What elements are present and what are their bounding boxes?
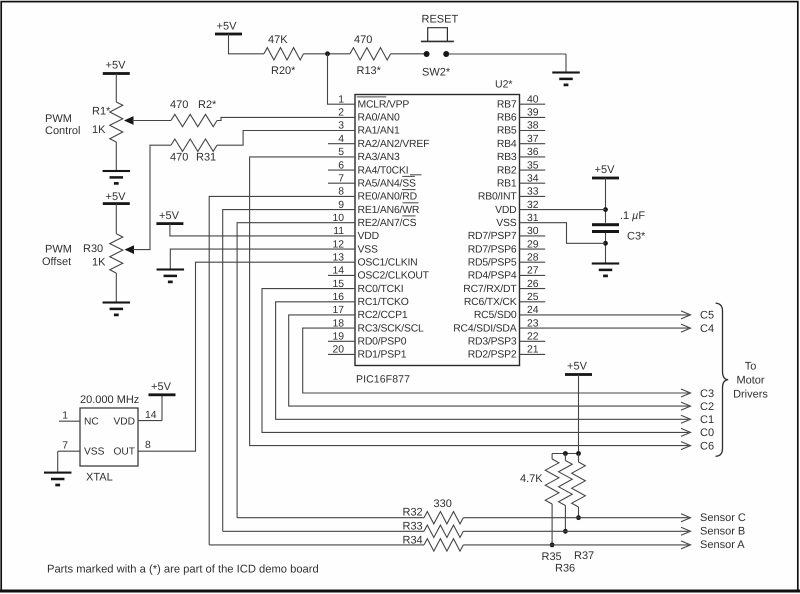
- svg-text:Control: Control: [45, 125, 80, 137]
- svg-text:1K: 1K: [92, 124, 106, 136]
- svg-text:RC2/CCP1: RC2/CCP1: [358, 310, 408, 321]
- svg-text:PWM: PWM: [45, 244, 72, 256]
- svg-text:R31: R31: [196, 152, 216, 164]
- svg-text:RB0/INT: RB0/INT: [478, 192, 517, 203]
- svg-text:VSS: VSS: [84, 447, 105, 458]
- svg-text:Offset: Offset: [42, 256, 71, 268]
- svg-text:RD7/PSP6: RD7/PSP6: [468, 244, 517, 255]
- svg-text:8: 8: [145, 440, 151, 451]
- svg-text:RD3/PSP3: RD3/PSP3: [468, 337, 517, 348]
- svg-text:Drivers: Drivers: [733, 389, 768, 401]
- svg-text:R30: R30: [83, 243, 103, 255]
- svg-text:Sensor C: Sensor C: [700, 512, 746, 524]
- svg-text:VDD: VDD: [113, 417, 135, 428]
- svg-text:C1: C1: [700, 414, 714, 426]
- svg-text:+5V: +5V: [159, 210, 180, 222]
- svg-text:OSC2/CLKOUT: OSC2/CLKOUT: [358, 271, 430, 282]
- svg-text:R20*: R20*: [271, 65, 296, 77]
- svg-text:C3*: C3*: [627, 231, 646, 243]
- svg-text:RC0/TCKI: RC0/TCKI: [358, 284, 404, 295]
- svg-text:470: 470: [354, 34, 372, 46]
- svg-text:RE1/AN6/WR: RE1/AN6/WR: [358, 205, 420, 216]
- svg-text:U2*: U2*: [495, 79, 513, 91]
- svg-text:PWM: PWM: [45, 113, 72, 125]
- svg-text:14: 14: [145, 410, 157, 421]
- svg-text:C5: C5: [700, 310, 714, 322]
- svg-text:R33: R33: [403, 521, 423, 533]
- svg-text:Sensor B: Sensor B: [700, 526, 745, 538]
- svg-text:7: 7: [62, 441, 68, 452]
- svg-text:Sensor A: Sensor A: [700, 539, 745, 551]
- svg-text:SW2*: SW2*: [422, 66, 451, 78]
- svg-text:RB1: RB1: [497, 178, 517, 189]
- svg-text:RA3/AN3: RA3/AN3: [358, 152, 400, 163]
- svg-text:RB2: RB2: [497, 165, 517, 176]
- svg-text:+5V: +5V: [106, 191, 127, 203]
- svg-text:RA0/AN0: RA0/AN0: [358, 113, 400, 124]
- svg-text:C3: C3: [700, 388, 714, 400]
- svg-text:VDD: VDD: [358, 231, 379, 242]
- svg-text:RB7: RB7: [497, 99, 517, 110]
- svg-text:RC6/TX/CK: RC6/TX/CK: [464, 297, 517, 308]
- svg-text:RE0/AN0/RD: RE0/AN0/RD: [358, 192, 417, 203]
- svg-text:20.000 MHz: 20.000 MHz: [80, 394, 139, 406]
- svg-text:µF: µF: [632, 210, 645, 222]
- svg-text:RA4/T0CKI: RA4/T0CKI: [358, 165, 409, 176]
- svg-text:RC7/RX/DT: RC7/RX/DT: [463, 284, 517, 295]
- svg-text:+5V: +5V: [217, 21, 238, 33]
- svg-text:+5V: +5V: [151, 381, 172, 393]
- svg-text:R32: R32: [403, 507, 423, 519]
- svg-text:VDD: VDD: [495, 205, 516, 216]
- svg-text:VSS: VSS: [358, 244, 379, 255]
- svg-text:RE2/AN7/CS: RE2/AN7/CS: [358, 218, 417, 229]
- svg-text:RD7/PSP7: RD7/PSP7: [468, 231, 517, 242]
- svg-text:C2: C2: [700, 401, 714, 413]
- svg-text:RC5/SD0: RC5/SD0: [474, 310, 517, 321]
- svg-text:XTAL: XTAL: [86, 472, 113, 484]
- svg-text:MCLR/VPP: MCLR/VPP: [358, 99, 410, 110]
- svg-text:RB4: RB4: [497, 139, 517, 150]
- svg-text:C4: C4: [700, 323, 714, 335]
- svg-text:4.7K: 4.7K: [520, 473, 543, 485]
- svg-text:+5V: +5V: [106, 60, 127, 72]
- svg-text:+5V: +5V: [567, 361, 588, 373]
- svg-text:R13*: R13*: [357, 65, 382, 77]
- svg-text:R34: R34: [403, 535, 423, 547]
- svg-text:R1*: R1*: [92, 106, 111, 118]
- svg-text:C0: C0: [700, 427, 714, 439]
- svg-text:R2*: R2*: [198, 99, 217, 111]
- svg-text:RB6: RB6: [497, 113, 517, 124]
- svg-text:RD0/PSP0: RD0/PSP0: [358, 337, 407, 348]
- svg-text:RC1/TCKO: RC1/TCKO: [358, 297, 409, 308]
- svg-text:PIC16F877: PIC16F877: [356, 374, 410, 386]
- svg-text:To: To: [745, 361, 757, 373]
- svg-text:RB5: RB5: [497, 126, 517, 137]
- svg-text:330: 330: [434, 498, 452, 510]
- svg-text:Parts marked with a (*) are pa: Parts marked with a (*) are part of the …: [47, 564, 319, 576]
- svg-text:R37: R37: [574, 550, 594, 562]
- svg-text:RD2/PSP2: RD2/PSP2: [468, 350, 517, 361]
- svg-text:R35: R35: [542, 551, 562, 563]
- svg-text:NC: NC: [84, 417, 99, 428]
- svg-text:RC3/SCK/SCL: RC3/SCK/SCL: [358, 323, 425, 334]
- svg-text:RA2/AN2/VREF: RA2/AN2/VREF: [358, 139, 430, 150]
- svg-text:+5V: +5V: [595, 164, 616, 176]
- svg-text:470: 470: [170, 152, 188, 164]
- svg-text:470: 470: [170, 99, 188, 111]
- svg-text:1K: 1K: [92, 257, 106, 269]
- svg-text:C6: C6: [700, 440, 714, 452]
- svg-text:RA1/AN1: RA1/AN1: [358, 126, 400, 137]
- svg-text:47K: 47K: [268, 34, 288, 46]
- svg-text:RB3: RB3: [497, 152, 517, 163]
- svg-text:RD5/PSP5: RD5/PSP5: [468, 257, 517, 268]
- svg-text:Motor: Motor: [736, 375, 764, 387]
- svg-text:OUT: OUT: [113, 447, 135, 458]
- svg-text:RC4/SDI/SDA: RC4/SDI/SDA: [453, 323, 517, 334]
- svg-text:VSS: VSS: [496, 218, 517, 229]
- svg-text:RD1/PSP1: RD1/PSP1: [358, 350, 407, 361]
- svg-text:RA5/AN4/SS: RA5/AN4/SS: [358, 178, 417, 189]
- svg-text:RD4/PSP4: RD4/PSP4: [468, 271, 517, 282]
- svg-text:RESET: RESET: [422, 13, 459, 25]
- svg-text:.1: .1: [620, 210, 629, 222]
- svg-text:OSC1/CLKIN: OSC1/CLKIN: [358, 257, 418, 268]
- svg-text:R36: R36: [555, 563, 575, 575]
- svg-text:1: 1: [62, 411, 68, 422]
